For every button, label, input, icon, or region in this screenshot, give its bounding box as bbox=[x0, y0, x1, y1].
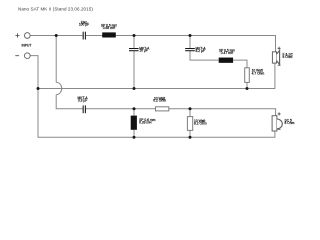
svg-text:4.7 Ohm: 4.7 Ohm bbox=[252, 72, 265, 76]
label SP2 minus sign bbox=[278, 128, 281, 130]
speaker SP1 fullrange bbox=[272, 51, 279, 65]
node mid rail x247 bbox=[246, 87, 249, 90]
node mid rail x38 bbox=[37, 87, 40, 90]
label SP1 minus sign bbox=[278, 64, 281, 66]
wire branch at node A down with hop bbox=[55, 36, 57, 83]
node dots bbox=[37, 34, 249, 139]
label input minus sign bbox=[15, 55, 19, 57]
wire mid rail bbox=[38, 63, 275, 88]
node top rail x134 bbox=[133, 34, 136, 37]
resistor R2 4.7 Ohm bbox=[245, 68, 250, 83]
label SP1 plus sign bbox=[278, 47, 281, 50]
svg-text:8 Ohm: 8 Ohm bbox=[283, 55, 293, 59]
svg-text:8 Ohm: 8 Ohm bbox=[285, 121, 295, 125]
capacitor C3 MKT-A 10uF bbox=[129, 48, 139, 51]
svg-text:3.3 µF: 3.3 µF bbox=[78, 98, 87, 102]
wire through 3.3uF to 6.2 Ohm bbox=[86, 108, 156, 110]
wire input minus to bottom rail bbox=[30, 56, 275, 138]
capacitor C1 Elko 100uF bbox=[83, 32, 86, 40]
wire 0.33mH branch bbox=[133, 109, 135, 116]
node mid rail x134 bbox=[133, 87, 136, 90]
node y109 x190 bbox=[189, 107, 192, 110]
svg-text:Nano SAT MK II (Stand 23.06.20: Nano SAT MK II (Stand 23.06.2015) bbox=[18, 7, 93, 12]
svg-text:0.33 mH: 0.33 mH bbox=[139, 120, 152, 124]
node top rail x190 bbox=[189, 34, 192, 37]
node bottom rail x134 bbox=[133, 136, 136, 139]
terminal - input bbox=[24, 53, 30, 59]
inductor L1 0.68mH bbox=[102, 32, 116, 37]
svg-text:0.68 mH: 0.68 mH bbox=[103, 26, 116, 30]
node bottom rail x190 bbox=[189, 136, 192, 139]
capacitor C2 MKT-A 3.3uF bbox=[83, 105, 86, 113]
inductor L2 0.47mH bbox=[219, 58, 233, 63]
svg-text:8.2 Ohm: 8.2 Ohm bbox=[194, 121, 207, 125]
svg-text:6.2 Ohm: 6.2 Ohm bbox=[153, 99, 166, 103]
svg-text:0.47 mH: 0.47 mH bbox=[221, 51, 234, 55]
node y109 x134 bbox=[133, 107, 136, 110]
inductor L3 0.33mH bbox=[131, 116, 137, 130]
svg-text:100 µF: 100 µF bbox=[79, 23, 89, 27]
svg-text:8.2 µF: 8.2 µF bbox=[196, 49, 205, 53]
speaker SP2 tweeter SC5 bbox=[272, 116, 282, 131]
svg-text:10 µF: 10 µF bbox=[139, 49, 148, 53]
wire 10uF branch bbox=[133, 36, 135, 49]
wire 6.2 Ohm to woofer top bbox=[169, 109, 276, 116]
wire 8.2uF branch bbox=[189, 36, 191, 49]
node top rail x56 bbox=[55, 34, 58, 37]
resistor R1 6.2 Ohm bbox=[156, 107, 169, 111]
capacitor C4 MKT-A 8.2uF bbox=[185, 48, 195, 51]
label input plus sign bbox=[15, 33, 19, 37]
terminal + input bbox=[24, 33, 30, 39]
resistor R3 8.2 Ohm bbox=[187, 117, 192, 131]
svg-text:INPUT: INPUT bbox=[22, 44, 32, 48]
wire top rail bbox=[30, 35, 83, 37]
label SP2 plus sign bbox=[278, 112, 281, 115]
wire 8.2 Ohm branch bbox=[189, 109, 191, 117]
